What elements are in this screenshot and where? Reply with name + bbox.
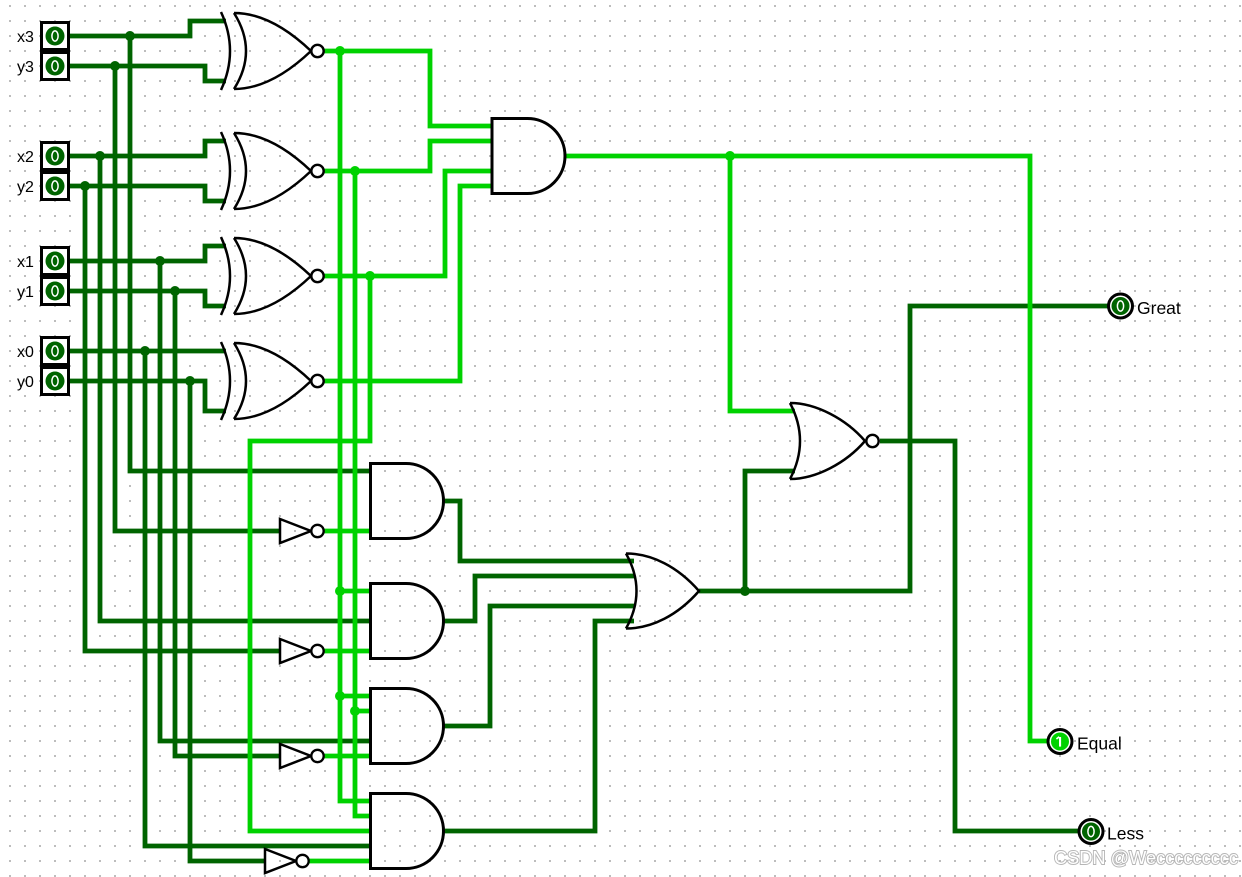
svg-text:y1: y1	[17, 284, 34, 301]
wire AND-B out to OR in2	[443, 576, 634, 621]
wire Great branch to NOR in2	[745, 471, 795, 591]
wire y2 to XNOR2 in B	[64, 186, 226, 201]
svg-text:Great: Great	[1137, 298, 1181, 318]
wire Equal branch to NOR in1	[730, 156, 795, 411]
junction node y2	[80, 181, 90, 191]
wire y0 to XNOR4 in B	[64, 381, 226, 411]
NOT gate N1 not-y3	[280, 519, 324, 543]
wire x1 to XNOR3 in A	[64, 246, 226, 261]
wire y0 bus to NOT4 in	[190, 381, 265, 861]
wire y2 bus to NOT2 in	[85, 186, 280, 651]
junction node eq1 top	[365, 271, 375, 281]
wire x1 bus to AND-C in3	[160, 261, 371, 741]
wire eq3 branch to AND-B in1	[340, 589, 371, 594]
input pin x2	[42, 143, 69, 170]
junction node x0	[140, 346, 150, 356]
wire AND-C out to OR in3	[443, 606, 634, 726]
junction node eq3 low	[335, 691, 345, 701]
input pin x1	[42, 248, 69, 275]
wire AND-D out to OR in4	[443, 621, 634, 831]
junction node eq3 top	[335, 46, 345, 56]
OR gate greater	[626, 554, 699, 629]
svg-text:y3: y3	[17, 59, 34, 76]
junction node y3	[110, 61, 120, 71]
NOT gate N2 not-y2	[280, 639, 324, 663]
wire eq1 bus to AND-D in3	[250, 276, 372, 831]
wire OR out / Great net	[699, 306, 1108, 591]
wire XNOR2 out to AND-E in2	[323, 141, 492, 171]
wire x3 to XNOR1 in A	[64, 21, 226, 36]
svg-text:x2: x2	[17, 149, 34, 166]
XNOR gate U1 (x3,y3)	[221, 12, 324, 90]
junction node y1	[170, 286, 180, 296]
svg-text:Equal: Equal	[1077, 734, 1122, 754]
svg-text:y2: y2	[17, 179, 34, 196]
input pin y1	[42, 278, 69, 305]
output pin Less	[1079, 820, 1103, 844]
wire y1 to XNOR3 in B	[64, 291, 226, 306]
XNOR gate U3 (x1,y1)	[221, 237, 324, 315]
NOR gate less	[790, 403, 879, 479]
output pin Great	[1109, 294, 1133, 318]
svg-text:y0: y0	[17, 374, 34, 391]
wire XNOR4 out to AND-E in4	[323, 186, 492, 381]
svg-text:x0: x0	[17, 344, 34, 361]
wire AND-E out / Equal net	[565, 156, 1048, 741]
input pin x0	[42, 338, 69, 365]
wire y1 bus to NOT3 in	[175, 291, 280, 756]
junction node eq3 mid	[335, 586, 345, 596]
output pin Equal	[1048, 730, 1072, 754]
svg-text:x1: x1	[17, 254, 34, 271]
wire XNOR3 out to AND-E in3	[323, 171, 492, 276]
svg-text:Less: Less	[1107, 824, 1144, 844]
junction node Equal	[725, 151, 735, 161]
wire NOT2 out to AND-B in3	[323, 649, 371, 654]
svg-text:x3: x3	[17, 29, 34, 46]
wire y3 to XNOR1 in B	[64, 66, 226, 81]
input pin y3	[42, 53, 69, 80]
wire NOT3 out to AND-C in4	[323, 754, 371, 759]
wire eq2 bus to AND-D in2	[355, 171, 372, 816]
junction node x3	[125, 31, 135, 41]
AND gate AND-D	[371, 794, 444, 869]
wire eq2 branch to AND-C in2	[355, 709, 372, 714]
NOT gate N4 not-y0	[265, 849, 309, 873]
junction node x1	[155, 256, 165, 266]
wire x0 to XNOR4 in A	[64, 349, 226, 354]
junction node Great	[740, 586, 750, 596]
wire NOT4 out to AND-D in5	[308, 859, 371, 864]
wire x2 bus to AND-B in2	[100, 156, 371, 621]
NOT gate N3 not-y1	[280, 744, 324, 768]
input pin y2	[42, 173, 69, 200]
wire x3 bus to AND-A in1	[130, 36, 371, 471]
XNOR gate U4 (x0,y0)	[221, 342, 324, 420]
wire eq3 bus to AND-D in1	[340, 51, 372, 801]
wire AND-A out to OR in1	[443, 501, 634, 561]
junction node y0	[185, 376, 195, 386]
wire XNOR1 out to AND-E in1	[323, 51, 492, 126]
wire x2 to XNOR2 in A	[64, 141, 226, 156]
AND gate AND-B	[371, 584, 444, 659]
junction node eq2 top	[350, 166, 360, 176]
wire eq3 branch to AND-C in1	[340, 694, 372, 699]
input pin y0	[42, 368, 69, 395]
AND gate AND-C	[371, 689, 444, 764]
AND gate AND-E equality	[492, 119, 565, 194]
junction node eq2 low	[350, 706, 360, 716]
XNOR gate U2 (x2,y2)	[221, 132, 324, 210]
AND gate AND-A	[371, 464, 444, 539]
wire NOT1 out to AND-A in2	[323, 529, 371, 534]
wire x0 bus to AND-D in4	[145, 351, 371, 846]
input pin x3	[42, 23, 69, 50]
svg-text:CSDN @Weccccccccc: CSDN @Weccccccccc	[1054, 847, 1238, 868]
wire NOR out to Less pin	[880, 441, 1078, 831]
junction node x2	[95, 151, 105, 161]
wire y3 bus to NOT1 in	[115, 66, 280, 531]
